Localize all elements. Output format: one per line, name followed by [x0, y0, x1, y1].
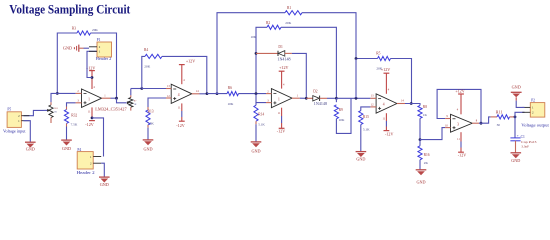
header P5 — [3, 108, 29, 134]
resistor R1 — [217, 6, 356, 93]
wire — [142, 88, 166, 90]
svg-text:1N4148: 1N4148 — [314, 101, 327, 106]
junction — [335, 97, 338, 100]
wire — [57, 92, 75, 94]
op-amp U2C part 3 — [445, 94, 479, 152]
svg-text:2: 2 — [267, 90, 269, 93]
resistor R14 — [254, 94, 266, 142]
ground — [99, 177, 110, 187]
resistor R9 — [334, 98, 351, 133]
junction — [480, 122, 483, 125]
svg-text:5.1K: 5.1K — [258, 123, 265, 127]
capacitor C1 — [510, 117, 536, 153]
svg-text:1K: 1K — [134, 104, 137, 106]
junction — [255, 92, 258, 95]
svg-text:1: 1 — [88, 97, 90, 101]
svg-text:-12V: -12V — [176, 123, 184, 128]
wire — [200, 93, 208, 95]
header P1 — [89, 38, 112, 61]
svg-text:GND: GND — [512, 85, 521, 90]
power GND port — [63, 45, 89, 52]
potentiometer R31 — [44, 93, 58, 123]
svg-text:Voltage output: Voltage output — [521, 123, 550, 127]
junction — [115, 97, 118, 100]
svg-text:12: 12 — [167, 95, 170, 98]
svg-text:4: 4 — [383, 103, 385, 107]
svg-text:1K: 1K — [54, 111, 57, 113]
ground — [251, 142, 262, 153]
junction — [410, 102, 413, 105]
junction — [355, 57, 358, 60]
ground — [511, 153, 522, 163]
svg-text:3.3nF: 3.3nF — [521, 145, 529, 149]
junction — [355, 97, 358, 100]
svg-text:20K: 20K — [144, 64, 150, 68]
wire — [336, 97, 370, 99]
svg-text:R5: R5 — [376, 52, 380, 56]
wire — [57, 33, 77, 93]
svg-text:+12V: +12V — [381, 67, 390, 72]
svg-text:R6: R6 — [228, 86, 232, 90]
svg-text:3: 3 — [457, 122, 459, 126]
op-amp U1D part 4 — [166, 65, 200, 122]
svg-text:R31: R31 — [54, 108, 58, 110]
diode D1 — [256, 45, 306, 99]
ground — [356, 152, 367, 162]
svg-text:4: 4 — [93, 86, 95, 89]
svg-text:13: 13 — [371, 95, 374, 98]
svg-text:1: 1 — [104, 95, 106, 98]
wire — [24, 121, 31, 142]
svg-text:GND: GND — [26, 147, 35, 152]
svg-text:8: 8 — [476, 119, 478, 122]
svg-text:11: 11 — [88, 111, 91, 114]
svg-text:4: 4 — [283, 83, 285, 86]
node A junction — [56, 92, 59, 95]
power -12V — [85, 121, 95, 127]
wire — [24, 110, 44, 115]
svg-text:10K: 10K — [228, 102, 234, 106]
svg-text:11: 11 — [178, 106, 181, 109]
resistor R15 — [359, 107, 371, 151]
svg-text:1K: 1K — [423, 113, 428, 117]
potentiometer R7 — [127, 89, 137, 111]
wire — [405, 104, 420, 106]
op-amp U1A part 1 — [76, 78, 128, 118]
wire — [420, 128, 445, 140]
svg-text:4: 4 — [178, 93, 180, 97]
junction — [255, 52, 258, 55]
svg-text:P2: P2 — [531, 99, 535, 103]
resistor R4 — [142, 48, 207, 93]
svg-text:GND: GND — [62, 146, 71, 151]
resistor R11 — [491, 110, 515, 126]
title text — [9, 2, 131, 17]
junction — [140, 87, 143, 90]
power GND port — [511, 85, 525, 108]
wire — [515, 112, 525, 117]
svg-text:GND: GND — [63, 46, 72, 51]
wire — [437, 89, 481, 123]
svg-text:D2: D2 — [313, 89, 318, 93]
junction — [305, 97, 308, 100]
svg-text:3: 3 — [77, 100, 79, 103]
power -12V — [277, 128, 285, 133]
svg-text:11: 11 — [457, 138, 460, 141]
header P2 — [521, 99, 550, 128]
svg-text:1: 1 — [297, 95, 299, 98]
ground — [143, 140, 154, 152]
wire — [239, 93, 267, 95]
junction — [514, 116, 517, 119]
svg-text:GND: GND — [143, 146, 152, 151]
svg-text:GND: GND — [100, 182, 109, 187]
ground — [416, 170, 427, 185]
svg-text:2K: 2K — [424, 161, 429, 165]
wire — [92, 118, 104, 157]
junction — [216, 92, 219, 95]
resistor R5 — [356, 52, 412, 104]
power -12V — [176, 121, 184, 128]
svg-text:Cap Pol3: Cap Pol3 — [521, 140, 537, 144]
svg-text:-12V: -12V — [385, 131, 393, 136]
power -12V — [384, 131, 394, 137]
svg-text:+12V: +12V — [279, 65, 288, 70]
resistor R32 — [64, 107, 77, 140]
svg-text:-12V: -12V — [458, 153, 466, 158]
ground — [25, 142, 36, 152]
svg-text:GND: GND — [251, 148, 260, 153]
svg-text:+12V: +12V — [455, 89, 464, 94]
wire — [479, 117, 491, 123]
svg-text:GND: GND — [356, 156, 365, 161]
svg-text:R2: R2 — [266, 21, 270, 25]
svg-text:Header 2: Header 2 — [77, 170, 95, 175]
svg-text:5.1K: 5.1K — [363, 128, 370, 132]
svg-text:P5: P5 — [7, 108, 11, 112]
resistor R6 — [227, 86, 239, 106]
svg-text:GND: GND — [511, 158, 520, 163]
svg-text:13: 13 — [167, 85, 170, 88]
svg-text:4: 4 — [388, 89, 390, 92]
svg-text:-12V: -12V — [85, 122, 93, 127]
power -12V — [458, 152, 466, 157]
wire — [207, 93, 227, 95]
svg-text:R13: R13 — [148, 110, 154, 114]
svg-text:10K: 10K — [251, 35, 257, 39]
resistor R13 — [146, 98, 166, 140]
svg-text:14: 14 — [401, 100, 404, 103]
diode D2 — [306, 89, 336, 105]
svg-text:30: 30 — [497, 123, 501, 127]
svg-text:14: 14 — [196, 90, 199, 93]
svg-text:+: + — [517, 134, 519, 138]
svg-text:Header 2: Header 2 — [96, 56, 112, 61]
svg-text:C1: C1 — [521, 135, 525, 139]
svg-text:4: 4 — [457, 109, 459, 112]
svg-text:R32: R32 — [71, 114, 77, 118]
svg-text:3: 3 — [267, 99, 269, 102]
svg-text:7.5K: 7.5K — [71, 123, 78, 127]
svg-text:10: 10 — [445, 124, 448, 127]
svg-text:R1: R1 — [287, 6, 291, 10]
svg-text:D1: D1 — [278, 45, 283, 49]
wire — [355, 59, 357, 99]
power +12V — [179, 59, 195, 65]
op-amp U2D part 4 — [370, 73, 405, 130]
header P4 — [77, 148, 102, 175]
resistor R2 — [251, 21, 337, 98]
svg-text:12: 12 — [371, 104, 374, 107]
wire — [101, 163, 104, 177]
svg-text:9: 9 — [446, 115, 448, 118]
junction — [419, 138, 422, 141]
op-amp U2A part 1 — [266, 71, 306, 128]
svg-text:R15: R15 — [363, 115, 369, 119]
svg-text:LM324_C351427: LM324_C351427 — [95, 107, 127, 112]
svg-text:1N4148: 1N4148 — [277, 57, 290, 62]
svg-text:-12V: -12V — [277, 129, 285, 134]
svg-text:1: 1 — [278, 97, 280, 101]
ground — [61, 140, 72, 151]
svg-text:+12V: +12V — [186, 59, 195, 64]
power +12V — [279, 65, 289, 71]
resistor R3 — [72, 27, 99, 35]
wire — [131, 88, 142, 90]
wire — [117, 98, 127, 103]
svg-text:11: 11 — [278, 112, 281, 115]
junction — [91, 117, 94, 120]
svg-text:20K: 20K — [92, 28, 98, 32]
svg-text:11: 11 — [382, 117, 385, 120]
power +12V — [381, 67, 390, 73]
svg-text:Voltage input: Voltage input — [3, 129, 27, 133]
wire — [67, 103, 76, 107]
junction — [206, 92, 209, 95]
svg-text:R7: R7 — [134, 101, 137, 103]
svg-text:2: 2 — [77, 90, 79, 93]
svg-text:R8: R8 — [423, 105, 427, 109]
svg-text:20K: 20K — [285, 21, 291, 25]
svg-text:R9: R9 — [339, 108, 343, 112]
svg-text:R14: R14 — [258, 112, 264, 116]
power +12V — [455, 89, 464, 95]
wire — [87, 51, 97, 77]
svg-text:10K: 10K — [339, 118, 345, 122]
svg-text:4: 4 — [183, 79, 185, 82]
svg-text:R3: R3 — [72, 27, 76, 31]
junction — [91, 76, 94, 79]
svg-text:R4: R4 — [144, 48, 148, 52]
svg-text:Voltage Sampling Circuit: Voltage Sampling Circuit — [9, 2, 131, 17]
power +12V — [86, 65, 95, 77]
svg-text:R16: R16 — [424, 153, 430, 157]
resistor R16 — [418, 140, 430, 170]
wire — [91, 33, 117, 98]
svg-text:R11: R11 — [496, 110, 503, 114]
resistor R8 — [418, 105, 428, 140]
svg-text:GND: GND — [416, 180, 425, 185]
svg-text:7.5K: 7.5K — [147, 122, 154, 126]
